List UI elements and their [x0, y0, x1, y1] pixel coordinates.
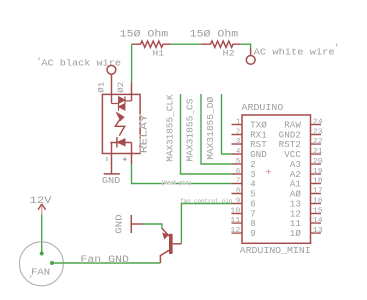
- svg-text:3: 3: [236, 138, 240, 146]
- pad AC white wire: [246, 49, 255, 65]
- IC ARDUINO (ARDUINO_MINI): [230, 102, 323, 256]
- svg-text:Ø2: Ø2: [116, 82, 126, 93]
- svg-text:AØ: AØ: [290, 190, 302, 200]
- arduino left pin names: [250, 121, 267, 240]
- svg-text:15Ø Ohm: 15Ø Ohm: [190, 29, 239, 40]
- svg-text:21: 21: [313, 148, 324, 156]
- svg-text:2: 2: [236, 128, 240, 136]
- svg-text:AC black wire: AC black wire: [41, 58, 121, 69]
- svg-text:A3: A3: [290, 160, 301, 170]
- wire fan control net: [181, 204, 231, 244]
- svg-text:16: 16: [313, 197, 323, 205]
- wire 12V to FAN: [41, 215, 43, 254]
- svg-text:4: 4: [250, 180, 256, 190]
- relay pin + label: [123, 157, 127, 161]
- wire Fan GND: [52, 262, 160, 264]
- arduino right pin stubs: [311, 125, 322, 234]
- wire heat pin net: [132, 164, 232, 184]
- supply 12V: [30, 195, 52, 215]
- wire MAX31855_CS: [201, 94, 232, 164]
- svg-text:9: 9: [250, 229, 256, 239]
- svg-text:24: 24: [313, 118, 324, 126]
- relay pin + lead: [131, 143, 133, 165]
- svg-text:RST2: RST2: [279, 140, 301, 150]
- base bar: [169, 234, 173, 254]
- svg-text:8: 8: [250, 219, 256, 229]
- svg-text:RST: RST: [250, 140, 267, 150]
- svg-text:4: 4: [236, 148, 241, 156]
- svg-text:MAX31855_CS: MAX31855_CS: [185, 98, 196, 162]
- svg-text:RX1: RX1: [250, 131, 267, 141]
- net label tick: [336, 44, 337, 47]
- base lead: [173, 243, 182, 245]
- resistor H1: [132, 41, 172, 47]
- wire MAX31855_D0: [222, 94, 232, 154]
- svg-text:GND: GND: [250, 150, 267, 160]
- svg-text:12V: 12V: [30, 195, 52, 206]
- emitter with arrow: [162, 228, 169, 236]
- svg-text:GND: GND: [114, 214, 125, 234]
- svg-text:Ø1: Ø1: [96, 82, 106, 93]
- svg-text:6: 6: [250, 200, 256, 210]
- arduino left pin stubs: [232, 125, 243, 234]
- svg-text:A1: A1: [290, 180, 301, 190]
- wire MAX31855_CLK: [181, 94, 232, 174]
- junction dot 12V: [40, 252, 44, 256]
- relay pin - label: [106, 157, 108, 161]
- svg-text:13: 13: [313, 227, 323, 235]
- svg-text:9: 9: [236, 197, 240, 205]
- svg-text:1Ø: 1Ø: [290, 229, 302, 239]
- ground GND under relay: [102, 174, 120, 186]
- junction dot Fan GND: [50, 261, 54, 265]
- svg-text:12: 12: [230, 227, 240, 235]
- svg-text:7: 7: [250, 210, 256, 220]
- svg-text:22: 22: [313, 138, 323, 146]
- svg-text:6: 6: [236, 168, 240, 176]
- svg-text:15: 15: [313, 207, 323, 215]
- relay pin 02 lead: [131, 83, 133, 101]
- connector FAN: [19, 242, 63, 286]
- svg-text:18: 18: [313, 177, 323, 185]
- arduino body box: [242, 115, 311, 243]
- svg-text:23: 23: [313, 128, 323, 136]
- arduino origin cross: [266, 169, 271, 174]
- pad AC black wire: [107, 65, 116, 74]
- wire H1 to H2: [171, 43, 201, 45]
- arduino right pin numbers: [313, 118, 324, 235]
- svg-text:GND: GND: [102, 176, 120, 186]
- svg-text:H1: H1: [153, 49, 165, 59]
- svg-text:17: 17: [313, 187, 323, 195]
- transistor Q1: [160, 228, 181, 263]
- svg-text:11: 11: [230, 217, 241, 225]
- svg-text:10: 10: [230, 207, 240, 215]
- relay opto arrow: [115, 112, 124, 136]
- wire from H1 corner down to relay pin 02: [131, 44, 133, 83]
- svg-text:MAX31855_CLK: MAX31855_CLK: [164, 94, 175, 162]
- svg-text:ARDUINO_MINI: ARDUINO_MINI: [240, 245, 311, 256]
- wire H2 to AC white pad: [241, 44, 251, 48]
- svg-text:H2: H2: [223, 49, 235, 59]
- svg-text:FAN: FAN: [31, 266, 50, 277]
- svg-text:A2: A2: [290, 170, 301, 180]
- svg-text:Fan GND: Fan GND: [80, 254, 129, 265]
- svg-text:VCC: VCC: [284, 150, 301, 160]
- svg-text:14: 14: [313, 217, 324, 225]
- svg-text:13: 13: [290, 200, 301, 210]
- svg-text:RELAY: RELAY: [139, 114, 150, 153]
- svg-text:GND2: GND2: [279, 131, 301, 141]
- svg-text:ARDUINO: ARDUINO: [242, 102, 284, 113]
- net label tick2: [39, 57, 40, 60]
- svg-text:MAX31855_DØ: MAX31855_DØ: [205, 96, 216, 160]
- svg-text:5: 5: [250, 190, 256, 200]
- svg-text:12: 12: [290, 210, 301, 220]
- wire GND to transistor emitter: [143, 224, 162, 229]
- svg-text:11: 11: [290, 219, 301, 229]
- svg-text:(heat pin): (heat pin): [161, 179, 192, 186]
- svg-text:8: 8: [236, 187, 240, 195]
- svg-text:2: 2: [250, 160, 256, 170]
- svg-text:20: 20: [313, 158, 323, 166]
- svg-text:7: 7: [236, 177, 240, 185]
- relay pin - lead: [111, 143, 113, 174]
- svg-text:RAW: RAW: [284, 121, 301, 131]
- relay triac: [112, 96, 132, 110]
- svg-text:19: 19: [313, 168, 323, 176]
- ground GND near transistor (rotated): [114, 214, 144, 234]
- svg-text:TXØ: TXØ: [250, 121, 267, 131]
- resistor H2: [201, 41, 241, 47]
- solid state relay RELAY: [96, 75, 150, 174]
- svg-text:5: 5: [236, 158, 240, 166]
- svg-text:AC white wire: AC white wire: [254, 47, 335, 58]
- arduino left pin numbers: [230, 118, 241, 235]
- svg-text:1: 1: [236, 118, 241, 126]
- arduino right pin names: [279, 121, 302, 240]
- relay pin 01 lead: [111, 75, 113, 104]
- svg-text:3: 3: [250, 170, 256, 180]
- collector: [160, 250, 169, 263]
- svg-text:15Ø Ohm: 15Ø Ohm: [120, 29, 169, 40]
- relay LED: [110, 137, 131, 147]
- relay body box: [102, 94, 140, 153]
